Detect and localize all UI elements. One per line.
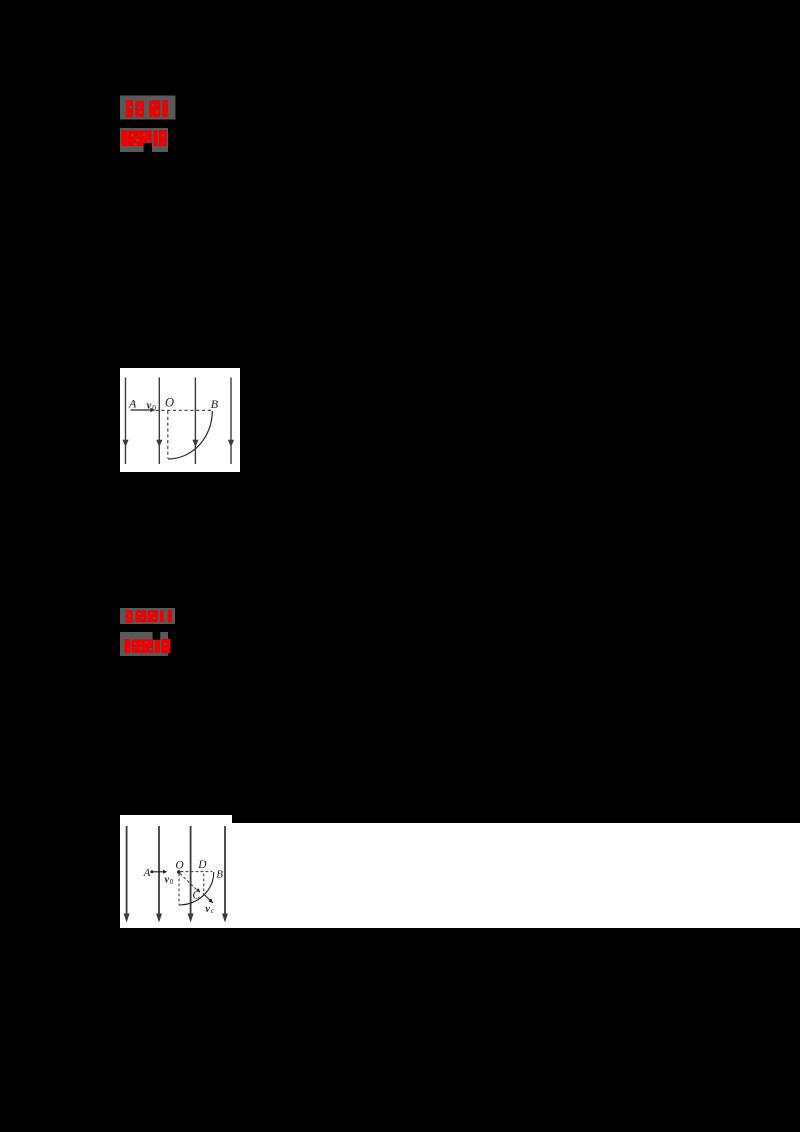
svg-text:A: A	[143, 867, 151, 879]
svg-text:D: D	[197, 859, 207, 871]
svg-text:C: C	[192, 890, 200, 902]
svg-text:c: c	[211, 907, 214, 915]
svg-text:O: O	[165, 395, 174, 409]
svg-text:A: A	[128, 397, 137, 411]
svg-text:B: B	[216, 868, 223, 880]
svg-text:v: v	[147, 400, 152, 411]
svg-text:v: v	[205, 904, 210, 915]
svg-text:0: 0	[152, 403, 156, 412]
svg-text:O: O	[175, 860, 184, 872]
svg-text:B: B	[211, 397, 219, 411]
svg-text:0: 0	[170, 878, 174, 886]
